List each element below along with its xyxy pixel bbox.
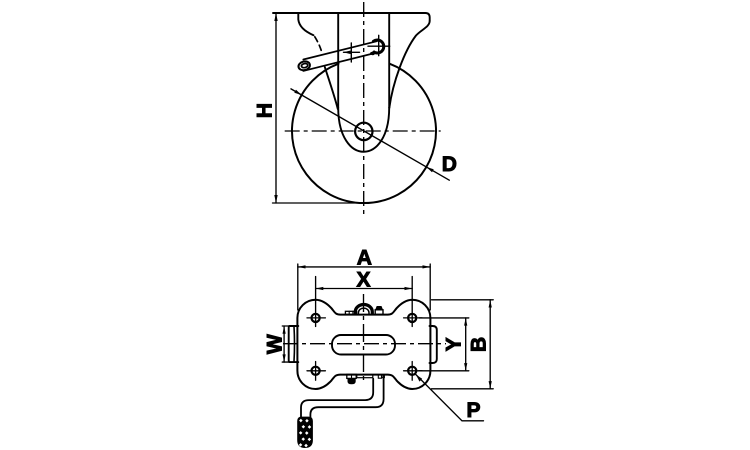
dimension Y line bbox=[465, 318, 467, 371]
bolt hole top-left bbox=[312, 314, 320, 322]
H bottom extension line bbox=[273, 202, 366, 204]
dimension A line bbox=[298, 266, 430, 268]
pedal arm outer line bbox=[310, 376, 383, 418]
left brake tab bbox=[289, 326, 299, 362]
mounting plate outline bbox=[297, 300, 430, 389]
A arrow left bbox=[298, 265, 306, 268]
eye horizontal centerline bbox=[368, 45, 390, 47]
rod mid pointer line bbox=[344, 51, 360, 53]
X arrow right bbox=[405, 287, 413, 290]
dimension Y extension bottom bbox=[419, 370, 469, 372]
H arrow top bbox=[274, 13, 277, 21]
A arrow right bbox=[423, 265, 431, 268]
brake rod end face ellipse bbox=[301, 63, 308, 68]
dimension B extension top bbox=[432, 299, 494, 301]
bottom mechanism: small rect pair bbox=[347, 374, 356, 378]
brake pedal (black with grip pattern) bbox=[297, 417, 313, 448]
bottom mechanism: horizontal bar bbox=[357, 375, 373, 378]
dimension B line bbox=[489, 300, 491, 389]
bottom mechanism: small rect B bbox=[382, 375, 385, 378]
P leader line bbox=[416, 375, 484, 421]
rod eye loop at right end bbox=[372, 40, 384, 54]
central slot bbox=[332, 335, 395, 355]
hole BL vertical tick bbox=[315, 362, 317, 381]
W arrow bottom bbox=[283, 354, 286, 362]
bracket bell left edge (hidden behind rod, dashed) bbox=[315, 37, 323, 54]
bracket bell left edge (solid upper part) bbox=[298, 13, 313, 35]
top plate (side view, top line with right rounded corner) bbox=[273, 13, 430, 21]
svg-text:Y: Y bbox=[443, 337, 466, 351]
bracket bell right edge bbox=[389, 21, 429, 108]
H arrow bottom bbox=[274, 195, 277, 203]
fork leg left bbox=[337, 14, 339, 108]
eye bolt vertical centerline bbox=[378, 35, 380, 55]
brake rod bottom edge bbox=[303, 53, 375, 71]
P leader arrowhead bbox=[416, 375, 422, 382]
hole TL horizontal tick bbox=[307, 317, 325, 319]
hole TR horizontal tick bbox=[404, 317, 422, 319]
Y arrow bottom bbox=[464, 363, 467, 371]
top mechanism: right nut body bbox=[375, 310, 383, 315]
wheel bbox=[292, 64, 436, 203]
brake rod top edge bbox=[303, 41, 377, 59]
dimension B extension bottom bbox=[432, 388, 494, 390]
top mechanism: right nut cap (dark) bbox=[375, 306, 383, 310]
axle hub bbox=[355, 123, 372, 140]
fork yoke U around axle bbox=[338, 108, 389, 152]
horizontal centerline (wheel axis) bbox=[285, 130, 441, 132]
svg-text:D: D bbox=[442, 153, 457, 176]
right brake tab bbox=[430, 326, 437, 363]
bottom mechanism: small rect A bbox=[378, 375, 381, 379]
brake rod left end cap bbox=[298, 60, 311, 71]
fork leg right bbox=[388, 14, 390, 108]
hole BR horizontal tick bbox=[404, 370, 422, 372]
top mechanism: left flat bar bbox=[345, 311, 356, 314]
bolt hole bottom-right bbox=[408, 367, 416, 375]
top mechanism: bar divider 1 bbox=[348, 311, 350, 314]
pedal grip dots bbox=[299, 419, 311, 448]
dimension W line bbox=[283, 326, 285, 362]
dimension H line bbox=[275, 13, 277, 203]
bracket bell left edge (solid lower part) bbox=[325, 67, 338, 109]
top mechanism: dome bolt cap bbox=[355, 305, 372, 314]
bolt hole bottom-left bbox=[312, 367, 320, 375]
svg-text:W: W bbox=[264, 334, 287, 354]
X arrow left bbox=[316, 287, 324, 290]
W arrow top bbox=[283, 326, 286, 334]
dimension Y extension top bbox=[419, 317, 469, 319]
bottom mechanism: dark bolt head bbox=[348, 378, 356, 384]
plan horizontal centerline bbox=[283, 343, 446, 345]
D arrow lower-right bbox=[426, 167, 433, 172]
Y arrow top bbox=[464, 318, 467, 326]
rod mid pointer arrowhead bbox=[343, 51, 351, 55]
rod mid cross tick bbox=[350, 43, 352, 62]
B arrow bottom bbox=[489, 381, 492, 389]
dimension X extension right (through hole) bbox=[411, 277, 413, 327]
svg-text:X: X bbox=[356, 268, 370, 291]
pedal arm inner line bbox=[301, 379, 373, 418]
hole BL horizontal tick bbox=[307, 370, 325, 372]
vertical centerline (side view) bbox=[363, 2, 365, 215]
dimension D diagonal line bbox=[291, 89, 449, 180]
left tab fold line bbox=[293, 327, 296, 362]
dimension W extension top tick bbox=[282, 325, 289, 327]
dimension W extension bottom tick bbox=[282, 361, 289, 363]
bolt hole top-right bbox=[408, 314, 416, 322]
plan vertical centerline bbox=[363, 294, 365, 384]
dimension X extension left (through hole) bbox=[315, 277, 317, 327]
dimension A extension left bbox=[297, 264, 299, 310]
svg-text:A: A bbox=[357, 247, 372, 270]
top mechanism: bar divider 2 bbox=[352, 311, 354, 314]
dimension X line bbox=[316, 288, 413, 290]
svg-text:P: P bbox=[466, 399, 480, 422]
svg-text:H: H bbox=[253, 103, 276, 118]
top mechanism: dome inner arc bbox=[358, 308, 369, 314]
hole BR vertical tick bbox=[411, 362, 413, 381]
dimension A extension right bbox=[429, 264, 431, 310]
B arrow top bbox=[489, 300, 492, 308]
bottom mechanism: rect divider bbox=[351, 374, 353, 378]
D arrow upper-left bbox=[294, 90, 301, 95]
svg-text:B: B bbox=[468, 337, 491, 352]
